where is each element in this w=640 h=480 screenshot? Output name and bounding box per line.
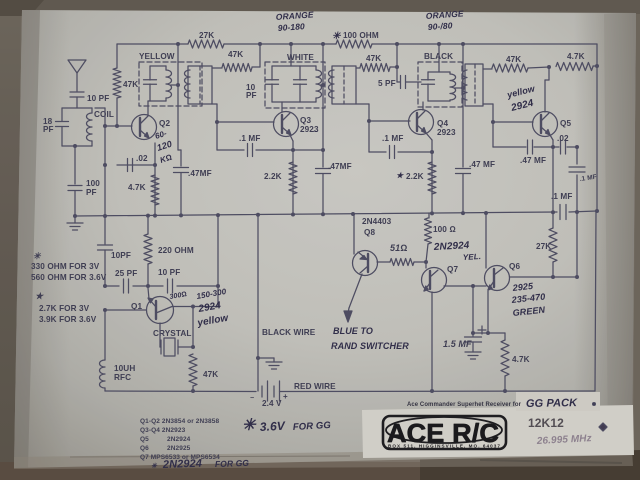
transistor Q5 (533, 112, 572, 137)
wire Q5 collector (545, 67, 549, 112)
capacitor 5PF (neutralizing) (378, 65, 421, 89)
wire Q5 emitter (550, 135, 555, 212)
resistor 27K (supply decoupling) (188, 31, 224, 48)
handwritten note 60-120 K (at Q2) (154, 129, 173, 165)
wire yellow secondary to Q3 base (212, 104, 274, 150)
handwritten note ORANGE 90-180 (right) (425, 8, 464, 32)
wire Q7 emitter to red wire rail (431, 292, 433, 391)
coil 10UH RFC (100, 310, 136, 391)
wire Q3 collector to white IF can (281, 102, 283, 112)
ground (1.5MF) (465, 352, 481, 359)
wire black secondary to Q5 base (483, 104, 533, 147)
wire detector output riser (576, 147, 578, 277)
IF can T3 BLACK (dashed shield) (418, 52, 462, 107)
handwritten note 3.6V FOR GG (242, 417, 332, 434)
resistor 4.7K (Q2 emitter) (128, 175, 159, 205)
capacitor .47MF (stage 1 bypass) (174, 168, 212, 217)
wire Q6 collector riser (485, 213, 487, 268)
wire tank to 100PF (73, 144, 77, 184)
transistor Q6 (485, 262, 521, 291)
transistor Q1 (131, 288, 174, 324)
handwritten note yellow 2924 (at Q5) (505, 83, 537, 114)
handwritten note 2N2924 FOR GG (151, 458, 249, 471)
white patch behind GG PACK (516, 392, 600, 411)
coil T1 secondary (185, 66, 213, 104)
capacitor .47MF (stage 2 bypass) (316, 150, 352, 214)
wire Q8 output arrow to band switcher (344, 274, 362, 322)
resistor 100 OHM (supply) (332, 31, 379, 48)
handwritten note 150-300 2924 yellow (at Q1) (169, 287, 230, 329)
resistor 2.2K (Q3 emitter) (264, 162, 297, 194)
wire Q6 output line (510, 275, 579, 279)
transistor Q3 (274, 112, 319, 137)
capacitor 10PF (osc feedback) (158, 268, 180, 293)
wire ground rail (75, 211, 597, 216)
wire Q2 base (95, 108, 132, 216)
handwritten GG PACK (526, 397, 596, 410)
resistor 51 ohm (Q8 to Q7) (377, 243, 428, 266)
logo ACE R/C (383, 416, 506, 449)
wire Q3 emitter to bypass riser (293, 148, 325, 152)
wire Q2 emitter (154, 143, 156, 216)
wire Q4 emitter (426, 133, 432, 213)
capacitor .47MF (Q5 base-emitter) (493, 140, 553, 165)
wire top supply rail (117, 44, 597, 212)
IF can T2 WHITE (dashed shield) (265, 53, 325, 108)
stamp 26.995 MHz (536, 433, 592, 447)
capacitor 10PF (antenna coupling) (70, 92, 109, 108)
wire Q4 collector to black IF can (422, 102, 424, 110)
wire T1 tap to supply riser (171, 42, 180, 106)
wire Q2 collector to yellow IF can (147, 101, 149, 116)
parts list (140, 418, 220, 461)
crystal Y1 CRYSTAL (153, 323, 195, 356)
capacitor .1MF (series in ground rail) (551, 192, 572, 220)
antenna (68, 60, 86, 91)
mark diamond (599, 423, 607, 431)
capacitor 25PF (osc) (115, 269, 137, 293)
wire T2 tap to bypass riser (320, 42, 325, 150)
resistor 47K (Q5 bias) (483, 55, 549, 72)
capacitor (inside T1) (144, 66, 167, 101)
resistor 4.7K (Q5 load) (547, 52, 599, 71)
coil T1 primary (166, 66, 172, 101)
wire T3 tap to bypass riser (455, 42, 465, 167)
resistor 27K (Q6 load) (536, 212, 557, 277)
coil T3 primary (450, 72, 456, 101)
IF can T1 YELLOW (dashed shield) (139, 52, 202, 106)
capacitor .1MF (Q3 base-emitter) (217, 134, 295, 157)
note 2.7K/3.9K options (35, 291, 97, 324)
capacitor 1.5MF electrolytic (443, 326, 486, 352)
wire osc emitter row (103, 284, 220, 288)
capacitor 10PF (osc feed) (98, 216, 131, 286)
wire Q8 emitter to ground rail (353, 214, 355, 254)
capacitor .02 (detector output) (553, 134, 579, 154)
handwritten note ORANGE 90-180 (left) (275, 9, 314, 33)
wire oscillator bottom rail (105, 390, 256, 393)
note 330/560 OHM options (31, 251, 107, 282)
capacitor 18PF (antenna tank) (43, 108, 69, 146)
resistor 220 OHM (osc) (144, 216, 194, 288)
wire Q1 base (103, 308, 146, 312)
stamp 12K12 (528, 416, 564, 430)
capacitor .02 (Q2 emitter) (117, 154, 157, 172)
resistor 2.2K (Q4 emitter) (396, 162, 436, 194)
capacitor .1MF (Q4 base-emitter) (369, 134, 434, 159)
battery 2.4V (250, 381, 288, 408)
coil T2 primary (300, 66, 322, 102)
resistor 100 ohm (Q7 feed) (425, 213, 456, 262)
wire supply riser into T2 (289, 42, 293, 66)
transistor Q4 (409, 110, 456, 138)
capacitor 10PF (inside T2) (246, 66, 279, 102)
resistor 47K (osc) (189, 354, 218, 393)
white sticker label (bottom right) (362, 405, 634, 464)
transistor Q2 (132, 115, 171, 140)
resistor 47K (interstage 2-3) (356, 42, 399, 72)
wire supply riser into T3 (437, 42, 441, 72)
title Ace Commander Superhet Receiver for (407, 401, 521, 408)
handwritten note BLUE TO BAND SWITCHER (331, 326, 409, 351)
resistor 47K (Q2 base bias) (113, 44, 138, 128)
capacitor 100PF (input bypass) (68, 179, 100, 216)
junction dots on ground rail (73, 209, 599, 218)
resistor 47K (interstage 1-2) (212, 42, 262, 72)
wire Q7 collector to Q6 base (444, 284, 486, 288)
wire red wire rail (battery plus) (280, 382, 596, 393)
wire osc collector riser (172, 215, 218, 309)
capacitor tuning (inside T2) (272, 66, 307, 102)
capacitor .47MF (stage 3 bypass) (456, 160, 496, 213)
wire right edge return (595, 212, 596, 391)
wire Q3 emitter (290, 135, 293, 214)
transistor Q7 (422, 262, 459, 293)
wire supply riser to .47MF bypass (178, 106, 181, 166)
wire black wire (battery minus) (256, 215, 316, 391)
coil T3 secondary (462, 64, 483, 106)
handwritten note 2925 235-470 GREEN (at Q6) (510, 281, 546, 318)
ground (main, left) (67, 216, 83, 230)
capacitor (inside T3) (422, 72, 451, 101)
wire white secondary to Q4 base (356, 104, 410, 152)
ground (black wire) (258, 358, 282, 369)
coil L1 antenna tank COIL (62, 108, 114, 146)
capacitor .1MF (output riser) (569, 167, 597, 183)
transistor Q8 2N4403 (353, 217, 392, 276)
wire Q6 emitter to bias node (471, 286, 505, 335)
coil T2 secondary (329, 66, 356, 104)
resistor 4.7K (Q6 emitter) (501, 333, 530, 393)
handwritten note 2N2924 YEL (at Q7) (433, 240, 482, 262)
wire crystal to collector riser (192, 307, 194, 348)
